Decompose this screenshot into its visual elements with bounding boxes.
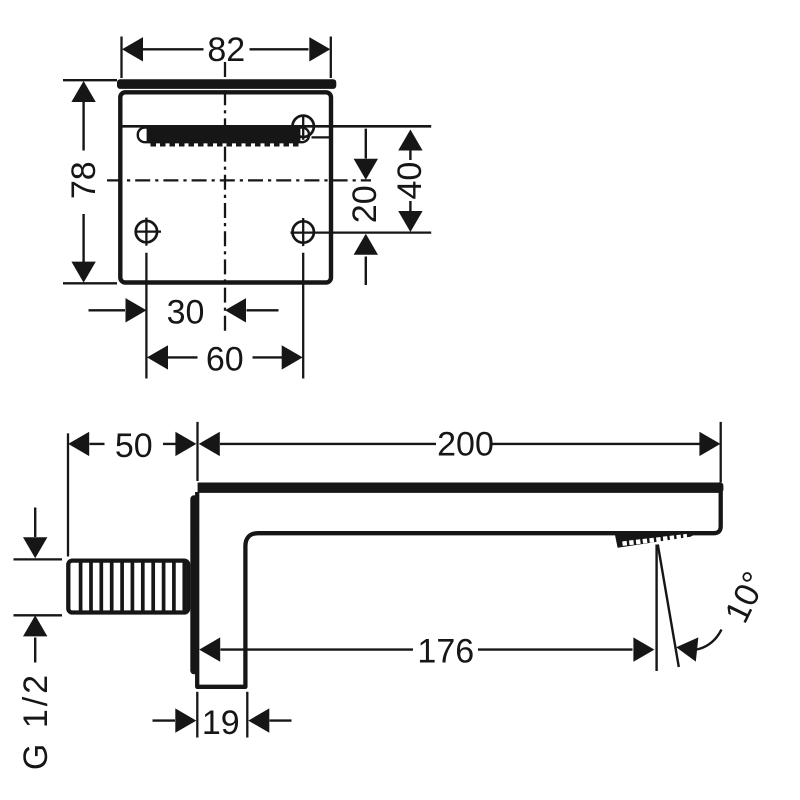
angle reference vertical line bbox=[655, 545, 657, 672]
slot axis line bbox=[123, 125, 432, 128]
dim 20 arrow up bbox=[354, 234, 378, 255]
dim 20 arrow down bbox=[354, 159, 378, 180]
svg-text:82: 82 bbox=[207, 31, 245, 69]
dim 50 arrow right bbox=[175, 432, 196, 456]
dim 200 arrow left bbox=[199, 432, 220, 456]
dim 50 line bbox=[90, 443, 176, 445]
slot lower edge line to body edge bbox=[312, 136, 331, 138]
dim 176 line bbox=[221, 648, 633, 650]
dim G12 extension line bottom bbox=[14, 614, 63, 616]
dim 60 line bbox=[168, 356, 282, 358]
spout body outline bbox=[197, 492, 721, 687]
dim 40 arrow up bbox=[398, 130, 422, 151]
svg-text:60: 60 bbox=[206, 341, 244, 379]
dim 19 extension line left bbox=[196, 692, 198, 738]
dim 60 arrow right bbox=[282, 345, 303, 369]
slot end circle bbox=[293, 116, 314, 137]
dim 60 arrow left bbox=[147, 345, 168, 369]
left mounting hole bbox=[136, 221, 157, 242]
dim 82 arrow left bbox=[122, 37, 143, 61]
right hole extension line bbox=[302, 253, 304, 379]
svg-text:200: 200 bbox=[437, 426, 494, 464]
dim 82 extension line left bbox=[120, 37, 122, 79]
dim 78 arrow up bbox=[71, 81, 95, 102]
dim 82 extension line right bbox=[330, 37, 332, 79]
right mounting hole bbox=[293, 221, 314, 242]
dim G12 arrow down bbox=[23, 537, 47, 558]
dim 19 arrow left bbox=[248, 708, 269, 732]
extension line pipe end bbox=[67, 433, 69, 556]
dim 78 extension line top bbox=[63, 79, 117, 81]
dim 50 arrow left bbox=[68, 432, 89, 456]
hole axis extension to dims 20/40 bbox=[291, 231, 432, 233]
left hole horizontal axis bbox=[135, 230, 162, 232]
svg-text:30: 30 bbox=[167, 293, 205, 331]
svg-text:50: 50 bbox=[115, 427, 153, 465]
svg-text:176: 176 bbox=[417, 633, 474, 671]
wall plate top bar bbox=[117, 79, 336, 89]
dim 176 arrow left bbox=[199, 637, 220, 661]
angle leader arc bbox=[697, 630, 722, 650]
slot axis line inside body bbox=[123, 125, 332, 128]
spout slot teeth bbox=[151, 142, 301, 146]
plate body outline bbox=[120, 92, 331, 282]
svg-text:19: 19 bbox=[202, 704, 240, 742]
aerator wedge bbox=[614, 532, 700, 548]
aerator outlets bbox=[623, 536, 688, 543]
dim G12 extension line top bbox=[14, 558, 63, 560]
spout slot outline bbox=[138, 128, 309, 143]
pipe threads bbox=[81, 562, 185, 612]
dim 19 arrow right bbox=[175, 708, 196, 732]
extension line spout tip bbox=[720, 422, 722, 483]
dim 19 extension line right bbox=[246, 692, 248, 738]
vertical centerline bbox=[224, 62, 226, 335]
svg-text:G 1/2: G 1/2 bbox=[17, 672, 55, 770]
dim 19 line bbox=[153, 719, 292, 721]
extension line wall face bbox=[196, 422, 198, 481]
dim G12 line top bbox=[34, 508, 36, 663]
dim 30 line bbox=[89, 309, 279, 311]
horizontal centerline bbox=[107, 179, 371, 181]
dim 200 line bbox=[220, 443, 700, 445]
dim 40 arrow down bbox=[398, 211, 422, 232]
dim 20 line bbox=[365, 129, 367, 285]
dim 78 arrow down bbox=[71, 262, 95, 283]
spout top plate bbox=[198, 483, 724, 493]
spout slot face bbox=[147, 127, 301, 142]
dim 176 arrow right bbox=[633, 637, 654, 661]
dim 30 arrow right bbox=[126, 298, 147, 322]
dim 40 line bbox=[409, 151, 411, 212]
dim 78 line bbox=[82, 102, 84, 262]
right hole vertical axis bbox=[302, 218, 304, 246]
dim 78 extension line bottom bbox=[63, 282, 117, 284]
svg-text:10°: 10° bbox=[718, 566, 775, 629]
threaded pipe body bbox=[68, 561, 188, 613]
wall plate (side profile) bbox=[190, 495, 198, 674]
left hole extension line bbox=[145, 253, 147, 379]
dim 82 arrow right bbox=[309, 37, 330, 61]
dim 82 line bbox=[143, 48, 309, 50]
dim 200 arrow right bbox=[699, 432, 720, 456]
dim 30 arrow left bbox=[225, 298, 246, 322]
svg-text:40: 40 bbox=[391, 162, 429, 200]
svg-text:20: 20 bbox=[346, 185, 384, 223]
left hole vertical axis bbox=[145, 218, 147, 246]
angle slanted line 10deg bbox=[658, 545, 679, 668]
dim G12 arrow up bbox=[23, 615, 47, 636]
angle arrow bbox=[675, 635, 698, 661]
slot circle vertical axis bbox=[302, 115, 304, 140]
svg-text:78: 78 bbox=[65, 161, 103, 199]
